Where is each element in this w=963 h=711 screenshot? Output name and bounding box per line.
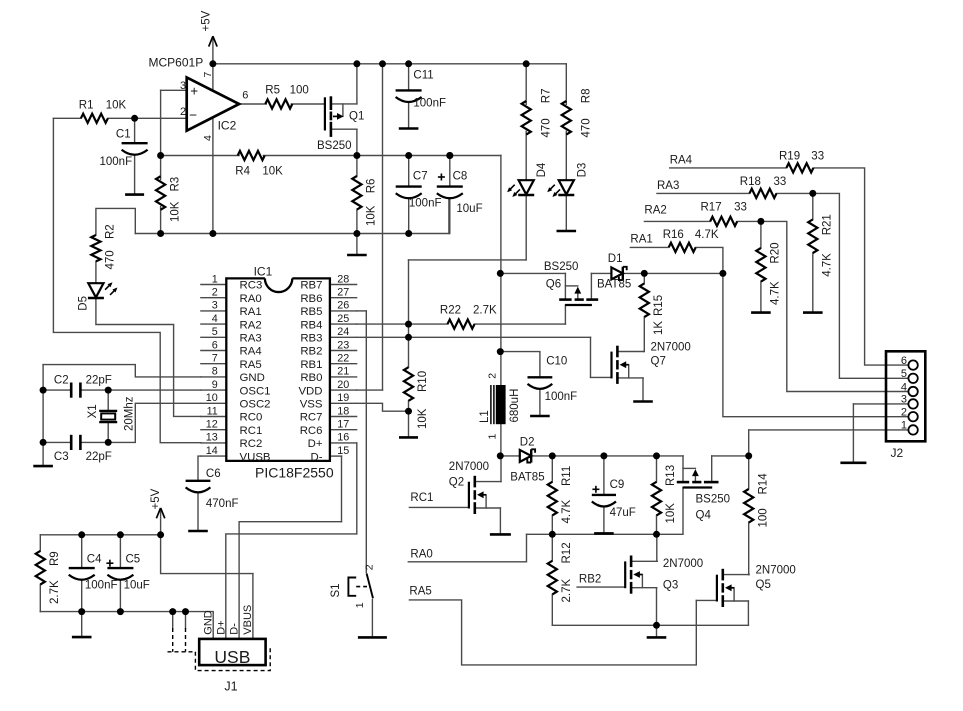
svg-text:R15: R15 — [653, 295, 665, 316]
svg-text:D5: D5 — [78, 296, 90, 311]
svg-text:RA0: RA0 — [240, 293, 262, 305]
svg-text:−: − — [189, 107, 197, 122]
svg-text:R9: R9 — [49, 551, 61, 566]
svg-text:2N7000: 2N7000 — [756, 565, 796, 577]
svg-text:11: 11 — [207, 405, 218, 417]
svg-text:4.7K: 4.7K — [822, 253, 834, 277]
svg-text:33: 33 — [734, 202, 747, 214]
svg-text:4: 4 — [212, 313, 218, 325]
svg-text:R21: R21 — [822, 214, 834, 235]
svg-text:10K: 10K — [262, 165, 283, 177]
svg-text:680uH: 680uH — [509, 389, 521, 423]
svg-text:R4: R4 — [235, 165, 250, 177]
svg-text:2.7K: 2.7K — [49, 580, 61, 604]
svg-text:3: 3 — [212, 300, 218, 312]
svg-text:10uF: 10uF — [124, 580, 150, 592]
svg-text:2: 2 — [180, 106, 186, 118]
svg-text:D+: D+ — [216, 620, 228, 634]
svg-text:2: 2 — [364, 564, 376, 570]
svg-text:1K: 1K — [653, 321, 665, 335]
svg-text:X1: X1 — [87, 404, 99, 418]
svg-text:RA2: RA2 — [240, 319, 262, 331]
svg-text:3: 3 — [180, 80, 186, 92]
svg-text:C3: C3 — [54, 451, 69, 463]
svg-text:R2: R2 — [104, 224, 116, 239]
svg-text:R13: R13 — [665, 465, 677, 486]
svg-text:+: + — [190, 83, 198, 98]
svg-text:Q3: Q3 — [663, 579, 678, 591]
svg-text:R11: R11 — [561, 466, 573, 486]
svg-text:1: 1 — [901, 420, 907, 432]
svg-text:C1: C1 — [116, 128, 131, 140]
svg-text:R6: R6 — [366, 179, 378, 194]
svg-text:RB6: RB6 — [300, 293, 322, 305]
svg-text:VSS: VSS — [300, 399, 323, 411]
svg-text:10K: 10K — [417, 408, 429, 429]
svg-text:RC3: RC3 — [240, 280, 263, 292]
svg-text:6: 6 — [242, 89, 248, 101]
svg-text:470nF: 470nF — [206, 498, 239, 510]
svg-text:RC6: RC6 — [300, 425, 323, 437]
svg-text:18: 18 — [337, 405, 349, 417]
svg-text:2N7000: 2N7000 — [651, 341, 691, 353]
svg-text:D2: D2 — [520, 437, 535, 449]
svg-text:100nF: 100nF — [413, 98, 446, 110]
svg-text:L1: L1 — [479, 410, 491, 423]
svg-text:+5V: +5V — [150, 488, 162, 509]
svg-text:Q6: Q6 — [546, 279, 561, 291]
svg-text:C8: C8 — [453, 171, 468, 183]
svg-text:R7: R7 — [541, 88, 553, 103]
svg-text:470: 470 — [581, 118, 593, 137]
svg-text:22pF: 22pF — [86, 375, 112, 387]
svg-text:BS250: BS250 — [696, 494, 731, 506]
svg-text:2.7K: 2.7K — [473, 305, 497, 317]
svg-text:10K: 10K — [169, 201, 181, 222]
svg-text:15: 15 — [337, 445, 349, 457]
svg-text:S1: S1 — [330, 583, 342, 597]
svg-text:10K: 10K — [665, 503, 677, 524]
svg-text:10uF: 10uF — [456, 203, 482, 215]
svg-text:2: 2 — [486, 373, 498, 379]
svg-text:25: 25 — [337, 313, 349, 325]
svg-text:470: 470 — [104, 250, 116, 269]
svg-text:R20: R20 — [770, 242, 782, 263]
svg-text:BS250: BS250 — [544, 261, 579, 273]
svg-text:4.7K: 4.7K — [561, 500, 573, 524]
svg-text:7: 7 — [202, 72, 214, 78]
svg-text:33: 33 — [811, 151, 824, 163]
svg-text:C5: C5 — [126, 554, 141, 566]
svg-text:24: 24 — [337, 326, 349, 338]
svg-text:100nF: 100nF — [409, 198, 442, 210]
svg-text:J2: J2 — [891, 446, 904, 460]
svg-text:GND: GND — [203, 610, 215, 635]
svg-text:2: 2 — [901, 407, 907, 419]
svg-text:7: 7 — [212, 353, 218, 365]
svg-text:OSC2: OSC2 — [240, 399, 271, 411]
svg-text:D-: D- — [310, 451, 322, 463]
svg-text:100nF: 100nF — [100, 156, 133, 168]
svg-text:RA3: RA3 — [657, 180, 679, 192]
svg-text:RB4: RB4 — [300, 319, 322, 331]
svg-text:8: 8 — [212, 366, 218, 378]
svg-text:BS250: BS250 — [317, 140, 352, 152]
svg-text:6: 6 — [901, 355, 907, 367]
svg-text:R12: R12 — [561, 542, 573, 563]
svg-text:RA4: RA4 — [670, 155, 693, 167]
svg-text:D+: D+ — [308, 438, 323, 450]
svg-text:Q1: Q1 — [349, 111, 364, 123]
svg-text:RB3: RB3 — [300, 333, 322, 345]
svg-text:5: 5 — [212, 326, 218, 338]
svg-text:RB2: RB2 — [300, 346, 322, 358]
svg-text:D3: D3 — [576, 163, 588, 178]
svg-text:C11: C11 — [413, 69, 433, 81]
svg-text:R1: R1 — [79, 99, 94, 111]
svg-text:3: 3 — [901, 394, 907, 406]
svg-text:RB1: RB1 — [300, 359, 322, 371]
svg-text:RB2: RB2 — [579, 573, 601, 585]
svg-text:100nF: 100nF — [85, 580, 118, 592]
svg-text:12: 12 — [206, 419, 218, 431]
svg-text:Q2: Q2 — [449, 477, 464, 489]
svg-text:9: 9 — [212, 379, 218, 391]
svg-text:22pF: 22pF — [86, 451, 112, 463]
svg-text:21: 21 — [337, 366, 349, 378]
svg-text:1: 1 — [212, 273, 218, 285]
svg-text:33: 33 — [774, 176, 787, 188]
svg-text:470: 470 — [541, 118, 553, 137]
svg-text:R18: R18 — [740, 176, 761, 188]
svg-text:+5V: +5V — [201, 10, 213, 31]
svg-text:R8: R8 — [581, 88, 593, 103]
svg-text:RC0: RC0 — [240, 412, 263, 424]
svg-text:VUSB: VUSB — [240, 451, 271, 463]
svg-text:47uF: 47uF — [610, 507, 636, 519]
svg-text:10K: 10K — [106, 99, 127, 111]
svg-text:2N7000: 2N7000 — [449, 461, 489, 473]
svg-text:20: 20 — [337, 379, 349, 391]
svg-text:R3: R3 — [169, 177, 181, 192]
svg-text:R19: R19 — [779, 151, 800, 163]
svg-text:10: 10 — [206, 392, 218, 404]
svg-text:R22: R22 — [440, 305, 461, 317]
svg-text:C4: C4 — [87, 554, 102, 566]
svg-text:C9: C9 — [610, 479, 625, 491]
svg-text:RB0: RB0 — [300, 372, 322, 384]
svg-text:BAT85: BAT85 — [597, 279, 631, 291]
svg-text:Q7: Q7 — [651, 356, 666, 368]
svg-text:GND: GND — [240, 372, 265, 384]
svg-text:RA3: RA3 — [240, 333, 262, 345]
svg-text:100: 100 — [290, 84, 309, 96]
svg-text:C2: C2 — [54, 375, 69, 387]
svg-text:D4: D4 — [536, 162, 548, 177]
svg-text:26: 26 — [337, 300, 349, 312]
svg-text:23: 23 — [337, 339, 349, 351]
svg-text:4.7K: 4.7K — [770, 281, 782, 305]
svg-text:16: 16 — [337, 432, 349, 444]
svg-text:C7: C7 — [413, 171, 428, 183]
svg-text:C6: C6 — [206, 468, 221, 480]
svg-text:6: 6 — [212, 339, 218, 351]
svg-text:2.7K: 2.7K — [561, 579, 573, 603]
svg-text:USB: USB — [214, 647, 250, 667]
svg-text:22: 22 — [337, 353, 349, 365]
svg-text:RA5: RA5 — [240, 359, 262, 371]
svg-text:VBUS: VBUS — [242, 605, 254, 635]
svg-text:R10: R10 — [417, 371, 429, 392]
svg-text:D1: D1 — [608, 253, 623, 265]
svg-text:1: 1 — [486, 434, 498, 440]
svg-text:2: 2 — [212, 287, 218, 299]
svg-text:MCP601P: MCP601P — [149, 56, 204, 70]
svg-text:RA2: RA2 — [644, 204, 666, 216]
svg-text:RC2: RC2 — [240, 438, 263, 450]
svg-text:R16: R16 — [663, 229, 684, 241]
svg-text:C10: C10 — [546, 356, 567, 368]
svg-text:R5: R5 — [265, 84, 280, 96]
svg-text:PIC18F2550: PIC18F2550 — [255, 464, 334, 480]
svg-text:J1: J1 — [224, 679, 237, 693]
svg-text:RB7: RB7 — [300, 280, 322, 292]
svg-text:2N7000: 2N7000 — [663, 558, 703, 570]
svg-text:RA0: RA0 — [410, 549, 432, 561]
svg-text:10K: 10K — [366, 205, 378, 226]
svg-text:Q4: Q4 — [696, 510, 712, 522]
svg-text:RB5: RB5 — [300, 306, 322, 318]
svg-text:RC7: RC7 — [300, 412, 323, 424]
svg-text:R14: R14 — [757, 473, 769, 495]
svg-text:RC1: RC1 — [410, 492, 433, 504]
svg-text:19: 19 — [337, 392, 349, 404]
svg-text:5: 5 — [901, 368, 907, 380]
svg-text:RA5: RA5 — [409, 586, 431, 598]
svg-text:Q5: Q5 — [756, 579, 771, 591]
svg-text:RA4: RA4 — [240, 346, 262, 358]
svg-text:4: 4 — [901, 381, 907, 393]
svg-text:OSC1: OSC1 — [240, 385, 271, 397]
svg-text:VDD: VDD — [298, 385, 322, 397]
svg-text:14: 14 — [206, 445, 218, 457]
svg-text:IC1: IC1 — [254, 264, 273, 278]
svg-text:4.7K: 4.7K — [695, 229, 719, 241]
svg-text:13: 13 — [206, 432, 218, 444]
svg-text:RA1: RA1 — [240, 306, 262, 318]
svg-text:4: 4 — [202, 135, 214, 141]
svg-text:BAT85: BAT85 — [510, 471, 544, 483]
svg-text:D-: D- — [229, 623, 241, 635]
svg-text:RA1: RA1 — [630, 233, 652, 245]
svg-text:17: 17 — [337, 419, 349, 431]
svg-text:100: 100 — [757, 508, 769, 527]
svg-text:R17: R17 — [701, 202, 722, 214]
svg-text:100nF: 100nF — [545, 391, 578, 403]
svg-text:28: 28 — [337, 273, 349, 285]
svg-text:1: 1 — [354, 602, 366, 608]
svg-text:27: 27 — [337, 287, 349, 299]
svg-text:IC2: IC2 — [218, 119, 237, 133]
svg-text:20Mhz: 20Mhz — [123, 396, 135, 431]
svg-text:RC1: RC1 — [240, 425, 263, 437]
